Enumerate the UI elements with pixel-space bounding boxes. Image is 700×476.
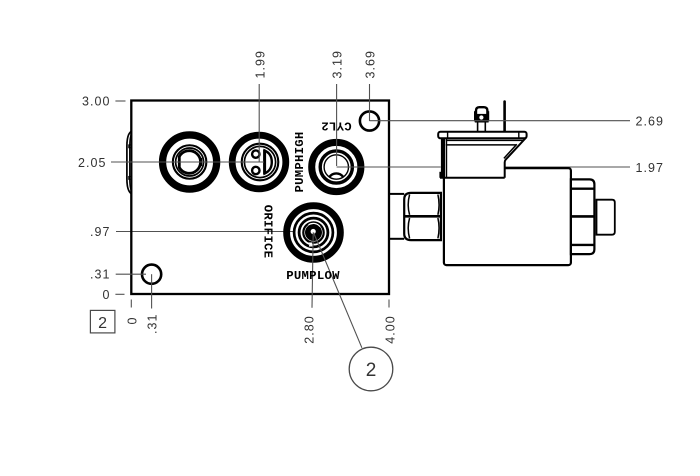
- port CYL2 (right): [312, 142, 361, 191]
- leader 1.99: [258, 84, 260, 162]
- dimension line .97 (under port PUMPLOW): [116, 231, 314, 233]
- dimension dash 3.00: [115, 100, 125, 102]
- valve neck at block: [390, 194, 405, 239]
- svg-text:4.00: 4.00: [383, 315, 397, 344]
- bolt hole bottom-left: [142, 265, 161, 284]
- inner diagonal: [504, 144, 517, 158]
- item box 2: [90, 310, 115, 333]
- leader 3.19: [336, 84, 338, 166]
- top flange: [438, 132, 526, 139]
- leader .31 bottom: [151, 274, 153, 308]
- leader 3.69: [369, 84, 371, 121]
- housing left dark band: [441, 138, 445, 178]
- svg-text:2: 2: [366, 360, 377, 381]
- sub-flange line 1: [446, 139, 524, 141]
- tick 0 bottom: [130, 300, 132, 308]
- leader 2.80 bottom: [312, 233, 313, 308]
- balloon leader: [314, 233, 362, 348]
- connector housing: [438, 132, 526, 178]
- port PUMPLOW (bottom): [287, 206, 341, 260]
- bolt hole top-right: [360, 111, 379, 130]
- housing body fill: [441, 138, 526, 178]
- dimension line 1.97 (left segment): [337, 166, 441, 168]
- half-disc bar: [265, 151, 272, 174]
- manifold block outline: [131, 101, 389, 295]
- dimension line .31 (left): [116, 273, 146, 275]
- svg-text:3.00: 3.00: [82, 95, 111, 109]
- terminal screw: [474, 107, 489, 132]
- svg-text:0: 0: [125, 316, 139, 324]
- valve hex nut (left): [404, 193, 441, 240]
- svg-text:.31: .31: [146, 313, 160, 334]
- svg-text:3.19: 3.19: [331, 50, 345, 79]
- left edge boss (side view): [127, 131, 131, 193]
- dimension line 1.97 (right segment): [505, 166, 630, 168]
- hex nut (right): [571, 179, 595, 254]
- dimension dash 0 (left): [115, 293, 124, 295]
- housing left inner line: [446, 138, 448, 178]
- port P1 (left): [163, 135, 217, 189]
- dimension line 2.69: [370, 120, 631, 122]
- svg-text:1.97: 1.97: [636, 161, 665, 175]
- svg-text:2.80: 2.80: [302, 315, 316, 344]
- pin hole bottom: [252, 167, 259, 174]
- svg-text:.97: .97: [90, 225, 111, 239]
- port P2 (middle): [232, 135, 286, 189]
- svg-text:0: 0: [102, 288, 110, 302]
- housing right diagonal outline: [505, 138, 527, 178]
- balloon circle 2: [349, 347, 393, 391]
- svg-text:2.05: 2.05: [78, 156, 107, 170]
- spade pin: [503, 100, 506, 132]
- svg-text:2: 2: [98, 315, 107, 332]
- svg-text:3.69: 3.69: [364, 50, 378, 79]
- svg-text:PUMPLOW: PUMPLOW: [286, 269, 340, 283]
- sub-flange line 2: [446, 144, 516, 146]
- svg-text:1.99: 1.99: [253, 50, 267, 79]
- housing bottom edge: [440, 177, 505, 179]
- svg-text:PUMPHIGH: PUMPHIGH: [293, 131, 307, 192]
- end cap: [597, 200, 615, 235]
- svg-text:.31: .31: [90, 268, 111, 282]
- svg-text:CYL2: CYL2: [321, 119, 352, 133]
- tick 4.00 bottom: [388, 300, 390, 308]
- svg-text:ORIFICE: ORIFICE: [261, 205, 275, 258]
- pin hole top: [252, 150, 259, 157]
- coil body: [444, 168, 571, 265]
- svg-text:2.69: 2.69: [636, 115, 665, 129]
- dimension line 2.05: [111, 161, 264, 163]
